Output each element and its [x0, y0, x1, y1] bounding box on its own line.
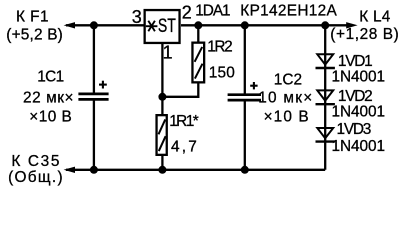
- node: junction bottom wire / C1: [90, 166, 98, 174]
- svg-text:1DA1: 1DA1: [195, 2, 230, 19]
- svg-text:×10 В: ×10 В: [29, 108, 72, 125]
- svg-text:4,7: 4,7: [171, 139, 197, 156]
- svg-text:ST: ST: [158, 15, 176, 37]
- wire R2 lower lead (bend to pin1 node): [162, 84, 198, 97]
- wire diode chain vertical: [324, 25, 326, 170]
- svg-text:1R1*: 1R1*: [169, 113, 199, 130]
- wire R2 upper lead: [197, 25, 199, 41]
- diode VD2: [316, 90, 335, 104]
- wire regulator pin 1 down: [161, 44, 163, 115]
- op-amp U1: voltage regulator DA1 box: [145, 10, 180, 43]
- svg-text:1С2: 1С2: [274, 71, 302, 88]
- node: junction top wire / diode chain: [321, 21, 329, 29]
- svg-text:1VD3: 1VD3: [337, 121, 372, 138]
- svg-text:1: 1: [163, 42, 173, 62]
- arrow to К C35 (left): [64, 167, 75, 173]
- node: junction top wire / C2: [241, 21, 249, 29]
- svg-text:К L4: К L4: [359, 9, 390, 26]
- arrow to К F1 (left): [64, 22, 75, 28]
- wire C1 upper lead: [93, 25, 95, 93]
- svg-text:1VD1: 1VD1: [338, 53, 373, 70]
- capacitor C2: [228, 82, 261, 100]
- node: junction top wire / R2: [194, 21, 202, 29]
- node: junction bottom wire / C2: [241, 166, 249, 174]
- svg-text:1С1: 1С1: [37, 69, 64, 86]
- wire C1 lower lead: [93, 99, 95, 169]
- svg-text:К F1: К F1: [16, 8, 49, 25]
- wire R1 lower lead: [161, 155, 163, 170]
- wire C2 lower lead: [244, 100, 246, 170]
- capacitor C1: [78, 81, 108, 100]
- svg-text:(+5,2 В): (+5,2 В): [6, 26, 63, 43]
- svg-text:10 мк×: 10 мк×: [258, 90, 312, 107]
- svg-text:22 мк×: 22 мк×: [23, 90, 74, 107]
- wire top-left from input arrow to regulator pin 3: [66, 24, 144, 26]
- svg-text:(+1,28 В): (+1,28 В): [330, 26, 399, 43]
- node A: junction top wire / C1 branch: [90, 21, 98, 29]
- diode VD1: [316, 54, 335, 68]
- svg-text:3: 3: [132, 7, 142, 27]
- svg-text:×10 В: ×10 В: [264, 108, 309, 125]
- svg-text:КР142ЕН12А: КР142ЕН12А: [240, 2, 337, 19]
- svg-text:(Общ.): (Общ.): [8, 169, 63, 186]
- resistor R2: [192, 43, 204, 83]
- svg-text:1N4001: 1N4001: [332, 69, 386, 86]
- svg-text:2: 2: [182, 2, 192, 22]
- wire C2 upper lead: [244, 25, 246, 94]
- svg-text:1R2: 1R2: [207, 38, 233, 55]
- wire top-right from regulator pin 2 to output arrow: [181, 24, 348, 26]
- svg-text:1N4001: 1N4001: [332, 104, 386, 121]
- resistor R1: [157, 115, 167, 155]
- node: junction pin1 / R2 lower lead: [158, 93, 166, 101]
- svg-text:К С35: К С35: [11, 153, 59, 170]
- node: junction bottom wire / R1: [158, 166, 166, 174]
- svg-text:150: 150: [209, 65, 235, 82]
- wire bottom common rail: [66, 169, 325, 171]
- diode VD3: [316, 128, 335, 142]
- svg-text:1N4001: 1N4001: [332, 138, 386, 155]
- arrow to К L4 (right): [346, 22, 357, 28]
